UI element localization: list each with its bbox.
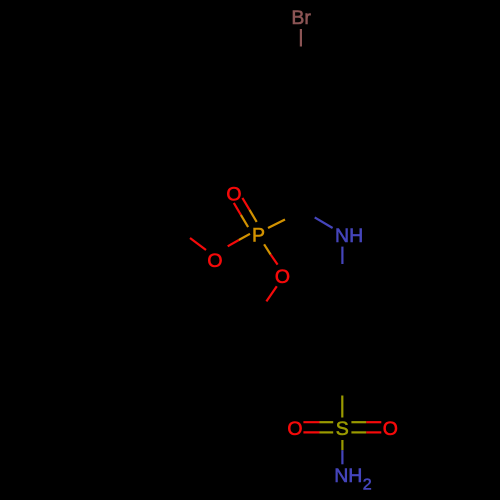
svg-text:Br: Br bbox=[291, 7, 311, 29]
svg-text:O: O bbox=[287, 418, 302, 440]
svg-text:O: O bbox=[275, 266, 290, 288]
svg-text:NH: NH bbox=[335, 225, 363, 247]
svg-text:NH: NH bbox=[334, 465, 362, 487]
svg-text:S: S bbox=[336, 418, 349, 440]
svg-text:O: O bbox=[207, 250, 222, 272]
svg-text:2: 2 bbox=[363, 477, 372, 494]
svg-text:O: O bbox=[383, 418, 398, 440]
svg-text:P: P bbox=[252, 225, 265, 247]
svg-text:O: O bbox=[226, 183, 241, 205]
